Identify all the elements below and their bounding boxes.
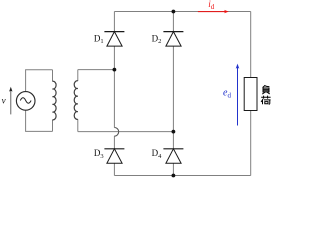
svg-text:ed: ed <box>223 87 231 99</box>
svg-text:id: id <box>208 0 215 11</box>
svg-text:D3: D3 <box>94 148 104 160</box>
svg-text:D4: D4 <box>152 148 163 160</box>
svg-text:v: v <box>2 95 6 105</box>
svg-text:D2: D2 <box>152 33 162 45</box>
svg-text:D1: D1 <box>94 33 104 45</box>
